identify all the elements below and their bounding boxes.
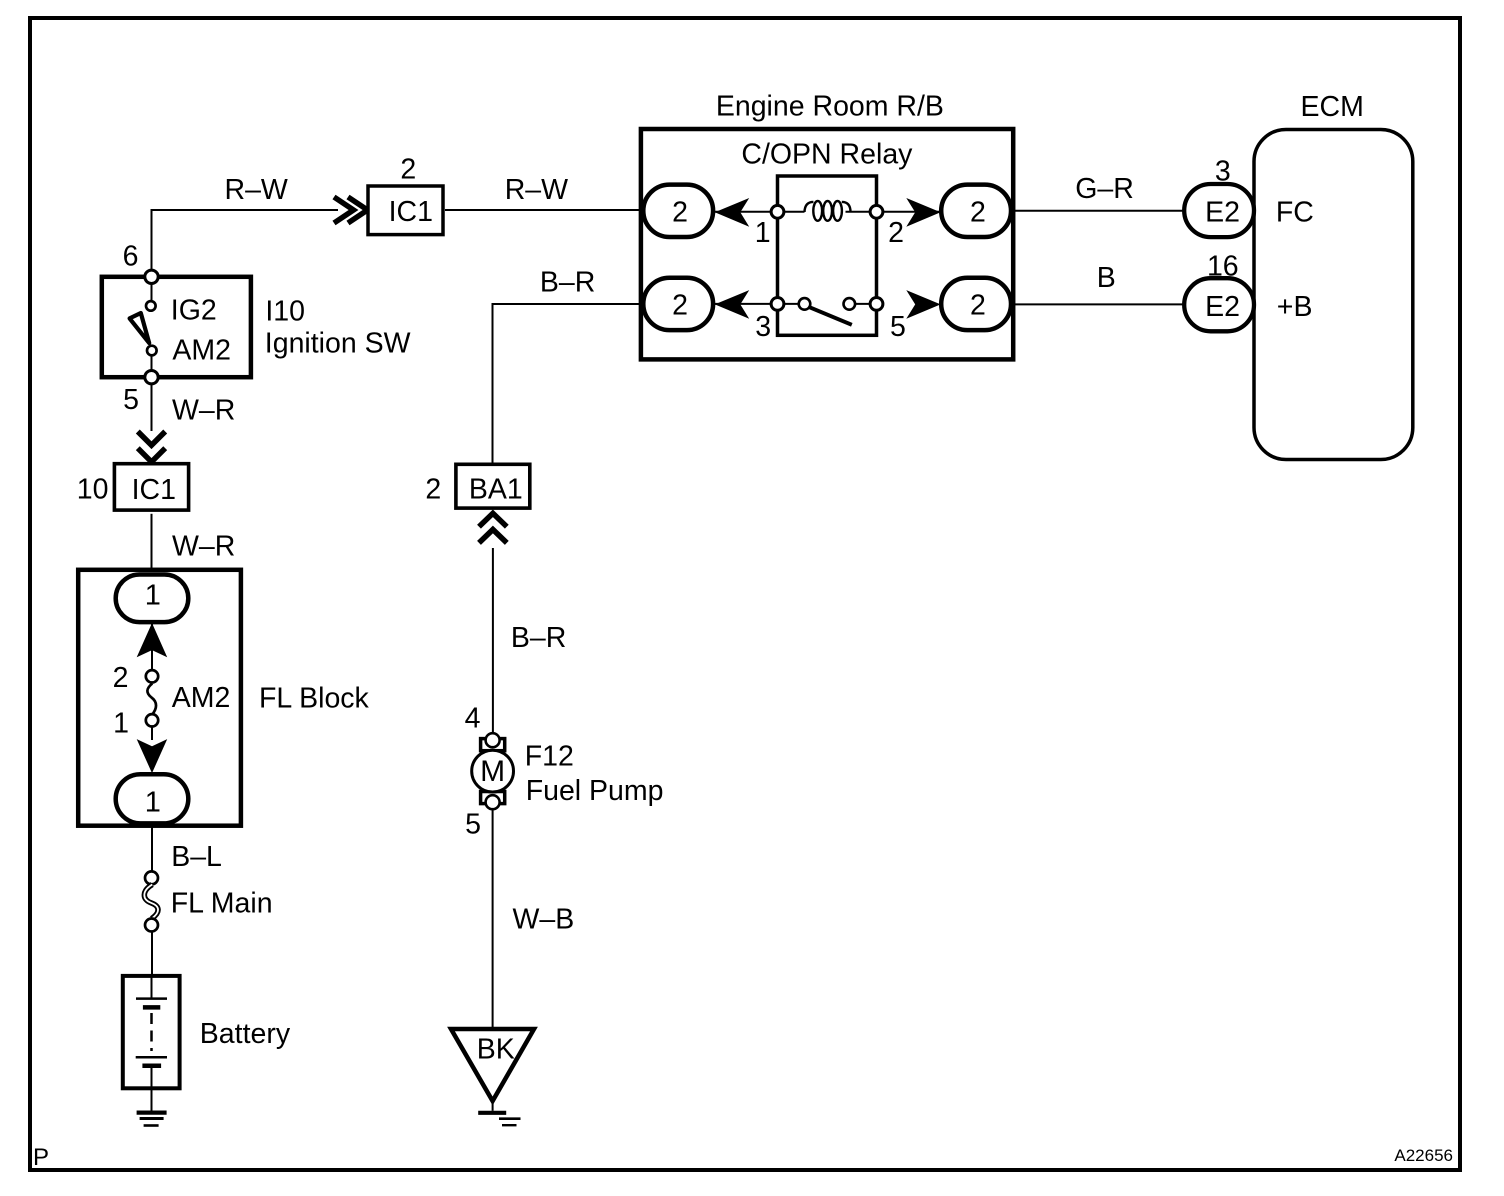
fuse AM2 lower terminal xyxy=(146,714,158,726)
wire R-W from IC1 to Engine Room R/B xyxy=(445,209,641,211)
wire R-W from ignition switch pin 6 to IC1 xyxy=(152,210,339,271)
down arrow (solid) xyxy=(137,739,168,773)
page letter P xyxy=(33,1144,49,1171)
wire from pin 5 down xyxy=(151,384,153,431)
relay pin 1 terminal xyxy=(771,205,784,218)
FL block top connector oval 1 xyxy=(116,575,189,623)
svg-text:2: 2 xyxy=(888,217,904,249)
FL block box xyxy=(78,570,241,826)
connector oval 2 (top left) xyxy=(643,185,713,237)
label AM2 xyxy=(172,335,231,367)
label FL Block xyxy=(259,683,370,715)
label I10 xyxy=(265,296,305,328)
svg-text:M: M xyxy=(480,755,505,788)
pin number 5 xyxy=(123,384,139,416)
svg-text:5: 5 xyxy=(890,311,906,343)
label Ignition SW xyxy=(265,328,411,360)
svg-text:2: 2 xyxy=(970,290,986,322)
figure number A22656 xyxy=(1394,1146,1453,1165)
FL block bottom connector oval 1 xyxy=(116,774,189,823)
svg-text:W–R: W–R xyxy=(172,531,235,563)
svg-text:4: 4 xyxy=(465,703,481,735)
svg-text:W–B: W–B xyxy=(513,904,575,936)
wire left oval to relay pin 1 xyxy=(713,211,777,213)
black arrow right (row 1) xyxy=(906,198,940,227)
ignition switch pin 6 terminal xyxy=(145,270,158,283)
relay switch blade xyxy=(809,307,852,325)
ground connector BK triangle xyxy=(451,1029,534,1101)
wire fuel pump to BK ground connector xyxy=(492,809,494,1029)
relay switch contact right xyxy=(844,298,856,310)
svg-text:2: 2 xyxy=(425,474,441,506)
svg-text:E2: E2 xyxy=(1205,291,1240,323)
label Engine Room R/B xyxy=(716,91,944,123)
wire B relay to ECM xyxy=(1013,303,1184,305)
svg-text:2: 2 xyxy=(400,154,416,186)
svg-text:IC1: IC1 xyxy=(132,474,176,506)
svg-text:2: 2 xyxy=(672,290,688,322)
wire from IC1 to FL block xyxy=(151,514,153,574)
svg-text:F12: F12 xyxy=(525,741,574,773)
fuse AM2 upper terminal xyxy=(146,670,158,682)
svg-text:Battery: Battery xyxy=(200,1018,291,1050)
wire relay pin 2 to right oval xyxy=(877,211,941,213)
svg-text:BK: BK xyxy=(477,1034,515,1066)
pin number 1 xyxy=(755,217,771,249)
wire label B-L xyxy=(171,841,222,873)
svg-text:1: 1 xyxy=(145,786,161,818)
svg-text:P: P xyxy=(33,1144,49,1171)
pin number 2 above IC1 xyxy=(400,154,416,186)
svg-text:AM2: AM2 xyxy=(172,335,231,367)
svg-text:W–R: W–R xyxy=(172,395,235,427)
svg-text:ECM: ECM xyxy=(1301,91,1364,123)
pin number 4 xyxy=(465,703,481,735)
junction connector BA1 xyxy=(456,464,530,508)
label Battery xyxy=(200,1018,291,1050)
pin number 16 (ECM) xyxy=(1207,251,1239,283)
svg-text:IC1: IC1 xyxy=(389,196,433,228)
junction connector IC1 (lower) xyxy=(114,464,188,510)
battery internal symbol xyxy=(136,976,167,1088)
svg-text:2: 2 xyxy=(113,662,129,694)
svg-text:R–W: R–W xyxy=(225,174,288,206)
connector arrow chevrons into BA1 (up) xyxy=(479,513,507,543)
wire BA1 to fuel pump xyxy=(492,548,494,734)
wire label B xyxy=(1097,262,1116,294)
fusible link FL Main upper terminal xyxy=(145,871,158,884)
relay pin 5 terminal xyxy=(870,298,883,311)
wire B-R from relay to BA1 xyxy=(493,304,642,463)
svg-text:B–R: B–R xyxy=(540,267,595,299)
ground symbol (BK) xyxy=(478,1113,520,1125)
wire BK to ground xyxy=(492,1101,494,1111)
switch blade wedge xyxy=(130,313,150,343)
svg-text:BA1: BA1 xyxy=(469,474,523,506)
svg-text:R–W: R–W xyxy=(505,174,568,206)
svg-text:1: 1 xyxy=(145,580,161,612)
connector oval 2 (top right) xyxy=(941,185,1011,237)
relay pin 3 terminal xyxy=(771,298,784,311)
label FC xyxy=(1276,197,1314,229)
pin number 5 (fuel pump) xyxy=(465,809,481,841)
relay switch contact left xyxy=(799,298,811,310)
label Fuel Pump xyxy=(526,775,664,807)
svg-text:E2: E2 xyxy=(1205,197,1240,229)
svg-text:1: 1 xyxy=(113,708,129,740)
relay pin 2 terminal xyxy=(870,205,883,218)
connector arrow chevrons into IC1 (vertical) xyxy=(138,432,165,462)
svg-text:Ignition SW: Ignition SW xyxy=(265,328,411,360)
svg-text:B: B xyxy=(1097,262,1116,294)
wire label R-W (right) xyxy=(505,174,568,206)
svg-text:IG2: IG2 xyxy=(171,294,217,326)
ignition switch I10 box xyxy=(102,277,251,377)
wire label W-R (lower) xyxy=(172,531,235,563)
svg-text:10: 10 xyxy=(77,474,109,506)
ground symbol (battery) xyxy=(137,1113,167,1126)
svg-text:1: 1 xyxy=(755,217,771,249)
relay coil xyxy=(778,201,877,221)
svg-text:5: 5 xyxy=(465,809,481,841)
label ECM xyxy=(1301,91,1364,123)
pin number 6 xyxy=(123,240,139,272)
wire label G-R xyxy=(1075,173,1134,205)
svg-text:FL Main: FL Main xyxy=(171,888,273,920)
relay C/OPN inner box xyxy=(778,176,877,335)
wire FL block to FL main xyxy=(151,823,153,874)
label AM2 xyxy=(172,682,231,714)
label FL Main xyxy=(171,888,273,920)
wire battery to ground xyxy=(151,1088,153,1111)
svg-text:FC: FC xyxy=(1276,197,1314,229)
connector oval E2 (+B) xyxy=(1184,278,1254,331)
connector oval 2 (bottom left) xyxy=(643,278,713,330)
svg-text:B–L: B–L xyxy=(171,841,222,873)
svg-text:+B: +B xyxy=(1277,291,1313,323)
wire label R-W (left) xyxy=(225,174,288,206)
pin number 5 (relay) xyxy=(890,311,906,343)
Engine Room R/B box xyxy=(641,129,1013,359)
ECM box xyxy=(1254,130,1413,460)
fusible link FL Main lower terminal xyxy=(145,919,158,932)
battery box xyxy=(123,976,180,1088)
black arrow left (row 2) xyxy=(715,290,749,319)
black arrow right (row 2) xyxy=(906,290,940,319)
connector oval 2 (bottom right) xyxy=(941,278,1011,330)
svg-text:A22656: A22656 xyxy=(1394,1146,1453,1165)
pin number 2 (BA1) xyxy=(425,474,441,506)
connector arrow chevrons into IC1 xyxy=(334,197,368,223)
svg-text:5: 5 xyxy=(123,384,139,416)
wire FL main to battery xyxy=(151,933,153,977)
svg-text:C/OPN Relay: C/OPN Relay xyxy=(741,138,913,170)
wire label W-B xyxy=(513,904,575,936)
pin number 1 (fuse AM2) xyxy=(113,708,129,740)
svg-text:Engine Room R/B: Engine Room R/B xyxy=(716,91,944,123)
label IG2 xyxy=(171,294,217,326)
junction connector IC1 (top) xyxy=(368,186,443,235)
wire label W-R (upper) xyxy=(172,395,235,427)
svg-text:3: 3 xyxy=(755,311,771,343)
fuel pump motor F12 xyxy=(472,733,514,809)
wire G-R relay to ECM xyxy=(1013,210,1184,212)
label +B xyxy=(1277,291,1313,323)
svg-text:AM2: AM2 xyxy=(172,682,231,714)
wire inside ignition switch xyxy=(151,277,153,377)
pin number 2 (fuse AM2) xyxy=(113,662,129,694)
connector oval E2 (FC) xyxy=(1184,184,1254,237)
AM2 contact xyxy=(147,346,157,356)
svg-text:I10: I10 xyxy=(265,296,305,328)
up arrow (solid) xyxy=(137,623,168,657)
pin number 3 (ECM) xyxy=(1215,155,1231,187)
label C/OPN Relay xyxy=(741,138,913,170)
black arrow left (row 1) xyxy=(715,198,749,227)
wire label B-R (lower) xyxy=(511,622,566,654)
svg-text:B–R: B–R xyxy=(511,622,566,654)
ignition switch pin 5 terminal xyxy=(145,371,158,384)
pin number 2 (relay) xyxy=(888,217,904,249)
svg-text:Fuel Pump: Fuel Pump xyxy=(526,775,664,807)
wire left oval to relay pin 3 xyxy=(713,303,877,305)
svg-text:FL Block: FL Block xyxy=(259,683,370,715)
wire inside FL block xyxy=(151,620,153,740)
fusible link FL Main element xyxy=(144,885,158,919)
pin number 3 xyxy=(755,311,771,343)
svg-text:G–R: G–R xyxy=(1075,173,1134,205)
fuse AM2 element squiggle xyxy=(147,684,156,716)
pin number 10 xyxy=(77,474,109,506)
svg-text:6: 6 xyxy=(123,240,139,272)
svg-text:2: 2 xyxy=(970,196,986,228)
IG2 contact xyxy=(146,301,156,311)
wire label B-R (upper) xyxy=(540,267,595,299)
svg-text:2: 2 xyxy=(672,196,688,228)
label F12 xyxy=(525,741,574,773)
